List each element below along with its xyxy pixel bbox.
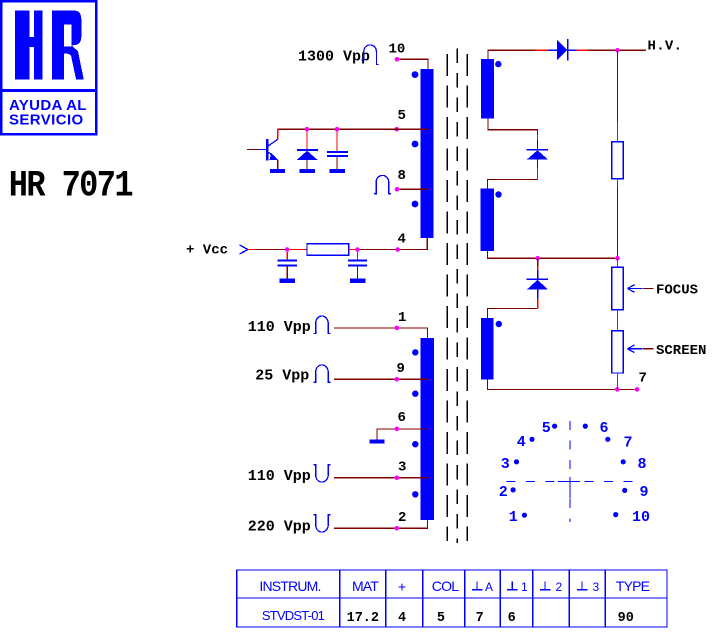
svg-text:1: 1 (398, 310, 406, 326)
svg-text:110 Vpp: 110 Vpp (248, 468, 311, 485)
wire pulse to pin1 (334, 327, 395, 329)
transistor Q1 (247, 139, 278, 161)
pinout pin 5 (542, 420, 557, 437)
winding W2 bar (420, 338, 434, 520)
wire D4 to W5 top (488, 309, 538, 319)
node junction J6 (615, 256, 620, 261)
svg-text:8: 8 (638, 456, 647, 473)
svg-text:7: 7 (624, 434, 633, 451)
wire J4 to pin4 (360, 249, 396, 251)
wire red lead to D2 (536, 49, 549, 51)
diode D3 (527, 140, 549, 168)
svg-text:3: 3 (593, 580, 600, 594)
svg-text:H.V.: H.V. (648, 39, 683, 55)
core dashed line middle (456, 48, 458, 543)
pulse symbol positive at pin 10 (362, 45, 379, 65)
wire red lead to R2 (616, 122, 618, 142)
logo frame HR box (1, 1, 96, 134)
table header gnd A (472, 580, 493, 594)
wire R1 to J4 (349, 249, 355, 251)
svg-text:220 Vpp: 220 Vpp (248, 519, 311, 536)
pulse symbol negative at pin 3 (313, 465, 330, 482)
W1 polarity dot a (412, 71, 419, 78)
W2 polarity dot b (412, 391, 418, 397)
svg-text:5: 5 (542, 420, 551, 437)
svg-text:3: 3 (398, 460, 406, 476)
ground G6 (369, 440, 384, 444)
svg-text:1300 Vpp: 1300 Vpp (298, 49, 370, 66)
pin 10 node (395, 57, 400, 62)
svg-text:8: 8 (398, 168, 406, 184)
svg-text:9: 9 (397, 361, 405, 377)
wire pin9 to W2 (399, 378, 428, 380)
resistor R2 bleeder (612, 142, 623, 179)
pinout pin 1 (509, 509, 527, 526)
svg-text:A: A (485, 580, 493, 594)
svg-text:2: 2 (499, 484, 508, 501)
svg-text:110 Vpp: 110 Vpp (248, 319, 311, 336)
table header gnd 1 (507, 580, 528, 594)
wire pin2 to W2 bottom (399, 520, 427, 528)
svg-text:90: 90 (618, 611, 634, 626)
pin 6 node (395, 427, 400, 432)
ground G4 (280, 278, 295, 283)
table grid (237, 570, 667, 627)
node junction J8 (615, 387, 620, 392)
wire pin5 rail (278, 128, 429, 130)
wire pin4 to W1 bottom (400, 238, 427, 250)
ground G5 (350, 278, 365, 283)
svg-text:6: 6 (398, 410, 406, 426)
Vcc input arrow (240, 245, 249, 254)
ground G3 (330, 169, 345, 173)
node junction J3 (285, 247, 290, 252)
core dashed line left (446, 54, 448, 541)
svg-text:TYPE: TYPE (616, 578, 650, 594)
svg-text:FOCUS: FOCUS (656, 283, 698, 299)
winding W3 bar (481, 59, 494, 119)
pin 9 node (395, 377, 400, 382)
wire Q1 emitter lead (277, 160, 279, 169)
wire J8 to terminal 7 (620, 388, 635, 390)
svg-text:4: 4 (517, 434, 526, 451)
wire Q1 collector lead (277, 129, 279, 139)
logo letter H (15, 11, 43, 80)
pinout pin 4 (517, 434, 535, 451)
svg-text:1: 1 (509, 509, 518, 526)
wire R4 to bottom rail (616, 373, 618, 389)
wire pulse to pin3 (334, 477, 395, 479)
svg-text:+: + (398, 579, 406, 595)
resistor R4 screen (612, 331, 623, 373)
wire J3 to R1 (289, 249, 307, 251)
resistor R1 (307, 244, 349, 256)
W5 polarity dot (496, 321, 502, 327)
wire pin3 to W2 (399, 477, 428, 479)
W1 polarity dot c (412, 201, 419, 208)
winding W5 bar (481, 318, 494, 380)
pinout pin 6 (583, 420, 609, 437)
wire pin6 to W2 (399, 428, 428, 430)
wire pulse to pin9 (334, 378, 395, 380)
svg-text:25 Vpp: 25 Vpp (255, 368, 309, 385)
pinout pin 10 (613, 509, 650, 526)
svg-text:9: 9 (640, 484, 649, 501)
wire pin6 ground stub (377, 429, 395, 440)
resistor R3 focus (612, 267, 623, 309)
pinout center cross (558, 477, 580, 499)
wire Vcc to J3 (257, 249, 285, 251)
focus arrow (628, 285, 654, 293)
wire R2 to J6 (616, 187, 618, 258)
wire red lead from D4 (537, 299, 539, 309)
wire red lead from D3 (537, 168, 539, 179)
svg-text:2: 2 (556, 580, 563, 594)
W4 polarity dot (495, 191, 501, 197)
node junction J7 (535, 256, 540, 261)
svg-text:HR 7071: HR 7071 (9, 165, 133, 207)
svg-text:COL: COL (432, 578, 459, 594)
svg-text:7: 7 (639, 371, 647, 387)
node junction J5 (615, 48, 620, 53)
svg-text:2: 2 (398, 510, 406, 526)
wire pin8 to W1 (399, 188, 428, 190)
pinout pin 7 (605, 434, 632, 451)
pinout pin 8 (621, 456, 647, 473)
W1 polarity dot b (412, 141, 419, 148)
svg-text:SERVICIO: SERVICIO (9, 111, 84, 128)
terminal node pin 7 (635, 387, 640, 392)
wire R3 to R4 (616, 310, 618, 331)
wire W5 bottom rail (488, 380, 616, 390)
pulse symbol positive at pin 1 (313, 316, 330, 333)
capacitor C2 (278, 252, 297, 278)
pulse symbol positive at pin 8 (374, 175, 391, 193)
wire W3 bottom to D3 (488, 119, 538, 135)
svg-text:5: 5 (398, 108, 406, 124)
pin 2 node (395, 526, 400, 531)
svg-text:5: 5 (437, 611, 445, 626)
pinout dashed axis vertical (569, 421, 571, 522)
wire red lead to D3 (537, 135, 539, 141)
svg-text:+ Vcc: + Vcc (186, 243, 228, 259)
node junction J1 (305, 127, 310, 132)
svg-text:6: 6 (508, 611, 516, 626)
svg-text:6: 6 (600, 420, 609, 437)
svg-text:4: 4 (398, 232, 406, 248)
W2 polarity dot a (412, 349, 418, 355)
W2 polarity dot d (412, 491, 418, 497)
node junction J4 (355, 247, 360, 252)
wire W3 top to HV rail (488, 50, 536, 59)
screen arrow (628, 345, 654, 353)
W3 polarity dot (495, 61, 501, 67)
logo letter R (52, 11, 84, 80)
pin 5 node (394, 127, 399, 132)
pin 8 node (395, 187, 400, 192)
svg-text:SCREEN: SCREEN (656, 343, 706, 359)
wire red lead to D4 (537, 266, 539, 270)
pulse symbol negative at pin 2 (313, 515, 330, 532)
wire J7 to D4 (537, 258, 539, 266)
pulse symbol positive at pin 9 (313, 365, 330, 382)
diode D1 (297, 132, 318, 169)
wire pin10 to winding W1 (399, 59, 428, 69)
svg-text:MAT: MAT (352, 578, 379, 594)
ground G2 (300, 169, 315, 173)
core dashed line right (466, 54, 468, 541)
wire pin1 to W2 top (399, 328, 427, 338)
svg-text:INSTRUM.: INSTRUM. (259, 578, 320, 594)
winding W1 primary bar (421, 69, 434, 238)
pinout dashed axis horizontal (507, 481, 637, 483)
winding W4 bar (481, 189, 494, 251)
node junction J2 (335, 127, 340, 132)
svg-text:STVDST-01: STVDST-01 (262, 608, 325, 623)
wire red lead from R2 (616, 179, 618, 187)
svg-text:10: 10 (632, 509, 650, 526)
svg-text:1: 1 (521, 580, 528, 594)
pin 4 node (395, 247, 400, 252)
diode D4 (527, 270, 549, 299)
svg-text:10: 10 (389, 42, 406, 58)
svg-text:17.2: 17.2 (347, 611, 379, 626)
capacitor C1 (327, 132, 348, 169)
wire HV node down (616, 50, 618, 122)
svg-text:4: 4 (398, 611, 406, 626)
pinout pin 2 (499, 484, 516, 501)
wire D2 to HV terminal (587, 49, 646, 51)
wire W4 bottom to rail (488, 251, 616, 258)
table header gnd 2 (540, 580, 563, 594)
svg-text:7: 7 (476, 611, 484, 626)
pin 1 node (395, 326, 400, 331)
wire D3 to W4 top (488, 180, 538, 189)
capacitor C3 (348, 252, 367, 278)
W2 polarity dot c (412, 441, 418, 447)
svg-text:3: 3 (501, 456, 510, 473)
pinout pin 3 (501, 456, 519, 473)
pin 3 node (395, 476, 400, 481)
wire red lead to R3 (616, 258, 618, 267)
ground G1 (270, 169, 285, 173)
table header gnd 3 (577, 580, 600, 594)
diode D2 HV rectifier (549, 39, 577, 61)
wire red lead from D2 (576, 49, 587, 51)
wire pulse to pin2 (334, 527, 395, 529)
pinout pin 9 (622, 484, 648, 501)
wire Vcc red lead (248, 249, 257, 251)
